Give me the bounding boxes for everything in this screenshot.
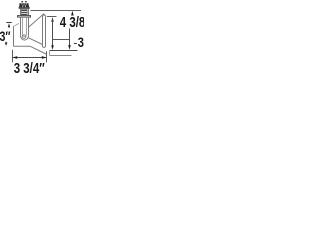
- lower reference line L1: [50, 50, 78, 52]
- svg-text:4 3/8: 4 3/8: [60, 14, 84, 31]
- bottom left arrowhead: [13, 56, 18, 59]
- flange: [18, 16, 31, 18]
- bottom right arrowhead: [42, 56, 47, 59]
- waist white slits: [22, 5, 24, 7]
- bonnet striped stem: [21, 9, 27, 15]
- pipe bottom curve: [43, 46, 46, 47]
- stem connector line: [53, 39, 70, 41]
- valve body cylinder outer walls: [20, 17, 22, 35]
- valve handle cap dots: [21, 1, 23, 3]
- down stem of 4 3/8 dimension: [69, 29, 71, 47]
- small down arrow under left label: [5, 42, 7, 43]
- top dimension extension line: [31, 10, 82, 12]
- outlet pipe walls: [42, 15, 44, 46]
- bottom dimension line: [13, 57, 47, 59]
- right label leader dash: [74, 43, 77, 45]
- handle hatch slits: [21, 3, 23, 5]
- up arrow to top line: [71, 11, 74, 16]
- left up arrowhead under bar: [8, 23, 10, 27]
- valve handle waist: [19, 5, 30, 7]
- mid dimension top line: [47, 16, 57, 18]
- svg-text:3: 3: [78, 35, 84, 50]
- mid down arrowhead: [51, 45, 54, 50]
- connector between L1 and L2: [49, 51, 51, 56]
- bonnet outer walls: [20, 9, 22, 16]
- plate top chamfer: [14, 23, 20, 26]
- left dimension top bar: [6, 22, 11, 24]
- body-to-pipe top diagonal: [28, 38, 42, 45]
- plate bottom-right diagonal: [30, 46, 47, 54]
- cylinder inner walls: [22, 17, 24, 34]
- bottom dimension left extension line: [12, 50, 14, 63]
- mounting plate left wall: [13, 26, 15, 46]
- svg-text:3″: 3″: [0, 28, 11, 44]
- bottom dimension right extension line: [46, 51, 48, 62]
- plate bottom edge: [14, 45, 31, 47]
- valve handle bottom band: [19, 7, 30, 8]
- mid up arrowhead: [51, 17, 54, 22]
- mid dimension stem: [52, 19, 54, 46]
- lower reference line L2: [50, 55, 72, 57]
- svg-text:3 3/4″: 3 3/4″: [14, 61, 45, 77]
- valve handle top band: [19, 3, 28, 5]
- drain hole circle: [22, 35, 26, 39]
- down arrowhead of 4 3/8: [68, 45, 71, 50]
- cylinder bottom outer arc: [21, 36, 29, 41]
- pipe apex top: [29, 14, 47, 27]
- pipe apex dark nib: [43, 14, 45, 16]
- cylinder bottom inner arc: [23, 34, 27, 37]
